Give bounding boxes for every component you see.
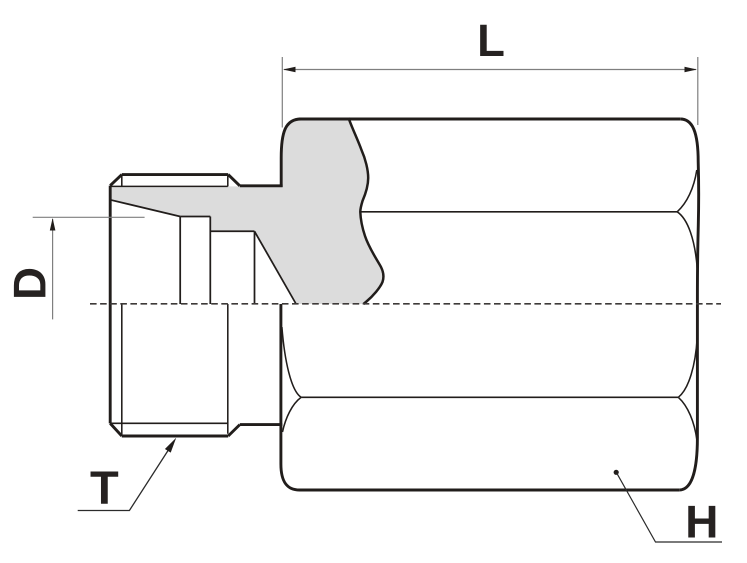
bore step edge 1 (179, 217, 181, 305)
label T (91, 471, 119, 503)
hex body top-left corner and left edge upper (to neck) (281, 119, 301, 187)
dimension L arrow left (283, 67, 296, 73)
male thread OD bottom (122, 435, 228, 438)
leader H dot (614, 470, 619, 475)
male thread chamfer bottom-left (110, 423, 122, 436)
dimension L label (480, 25, 503, 56)
hex body top-right chamfer corner (680, 119, 698, 162)
break line (wavy) (349, 118, 384, 304)
male thread OD top (122, 173, 228, 176)
male thread end face (109, 186, 112, 424)
dimension D line (52, 219, 54, 319)
male thread chamfer top-left (110, 175, 122, 186)
dimension D extension line (33, 216, 145, 218)
thread chamfer circle bottom (121, 304, 123, 436)
leader T arrowhead (165, 438, 176, 453)
bore entry taper (110, 200, 180, 217)
hex flat line top (from break line to right) (360, 211, 677, 213)
neck top line (240, 184, 283, 187)
hex corner arc bottom-left lower (283, 397, 302, 432)
bore step edge 2 (209, 217, 211, 305)
hex corner arc bottom-left upper (282, 327, 301, 397)
hex body bottom edge (300, 489, 680, 492)
label H (688, 506, 715, 538)
bore cone bottom (255, 231, 296, 303)
hex flat line bottom (301, 396, 678, 398)
bore wall 2 (210, 230, 254, 232)
hex corner arc right middle-band upper (677, 212, 697, 268)
hex corner arc right middle-band lower (678, 338, 697, 397)
neck bottom line (240, 423, 282, 426)
bore wall 1 (180, 216, 210, 218)
hex body bottom-left corner (281, 304, 300, 490)
dimension L extension line right (697, 57, 699, 125)
thread minor line top (110, 185, 228, 187)
male thread runout chamfer top-right (228, 175, 240, 186)
hex body top edge (299, 118, 680, 121)
hex corner arc bottom-right lower (678, 397, 697, 440)
thread end circle bottom (227, 304, 229, 434)
dimension L arrow right (685, 67, 698, 73)
bore step edge 3 (254, 231, 256, 304)
hex body bottom-right chamfer corner (679, 438, 697, 490)
leader T line (78, 443, 174, 511)
thread end circle top (227, 176, 229, 187)
dimension D label (rotated) (14, 269, 46, 297)
male thread runout chamfer bottom-right (228, 425, 240, 436)
hex corner arc top-right upper (677, 170, 697, 212)
centerline (90, 303, 721, 305)
thread minor line bottom (110, 422, 228, 424)
hex body right edge (697, 162, 698, 438)
leader H line (617, 473, 722, 542)
dimension L line (284, 69, 696, 71)
section fill (gray cut material) (110, 119, 383, 305)
thread chamfer circle top (121, 175, 123, 187)
dimension L extension line left (281, 57, 283, 128)
dimension D arrow (50, 218, 56, 231)
